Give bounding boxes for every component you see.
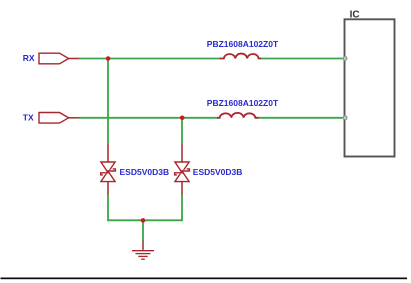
svg-text:PBZ1608A102Z0T: PBZ1608A102Z0T — [207, 39, 279, 49]
svg-text:RX: RX — [23, 53, 35, 63]
svg-text:ESD5V0D3B: ESD5V0D3B — [120, 167, 170, 177]
svg-text:IC: IC — [350, 10, 360, 21]
svg-text:ESD5V0D3B: ESD5V0D3B — [193, 167, 243, 177]
svg-text:PBZ1608A102Z0T: PBZ1608A102Z0T — [207, 98, 279, 108]
svg-text:TX: TX — [23, 112, 34, 122]
